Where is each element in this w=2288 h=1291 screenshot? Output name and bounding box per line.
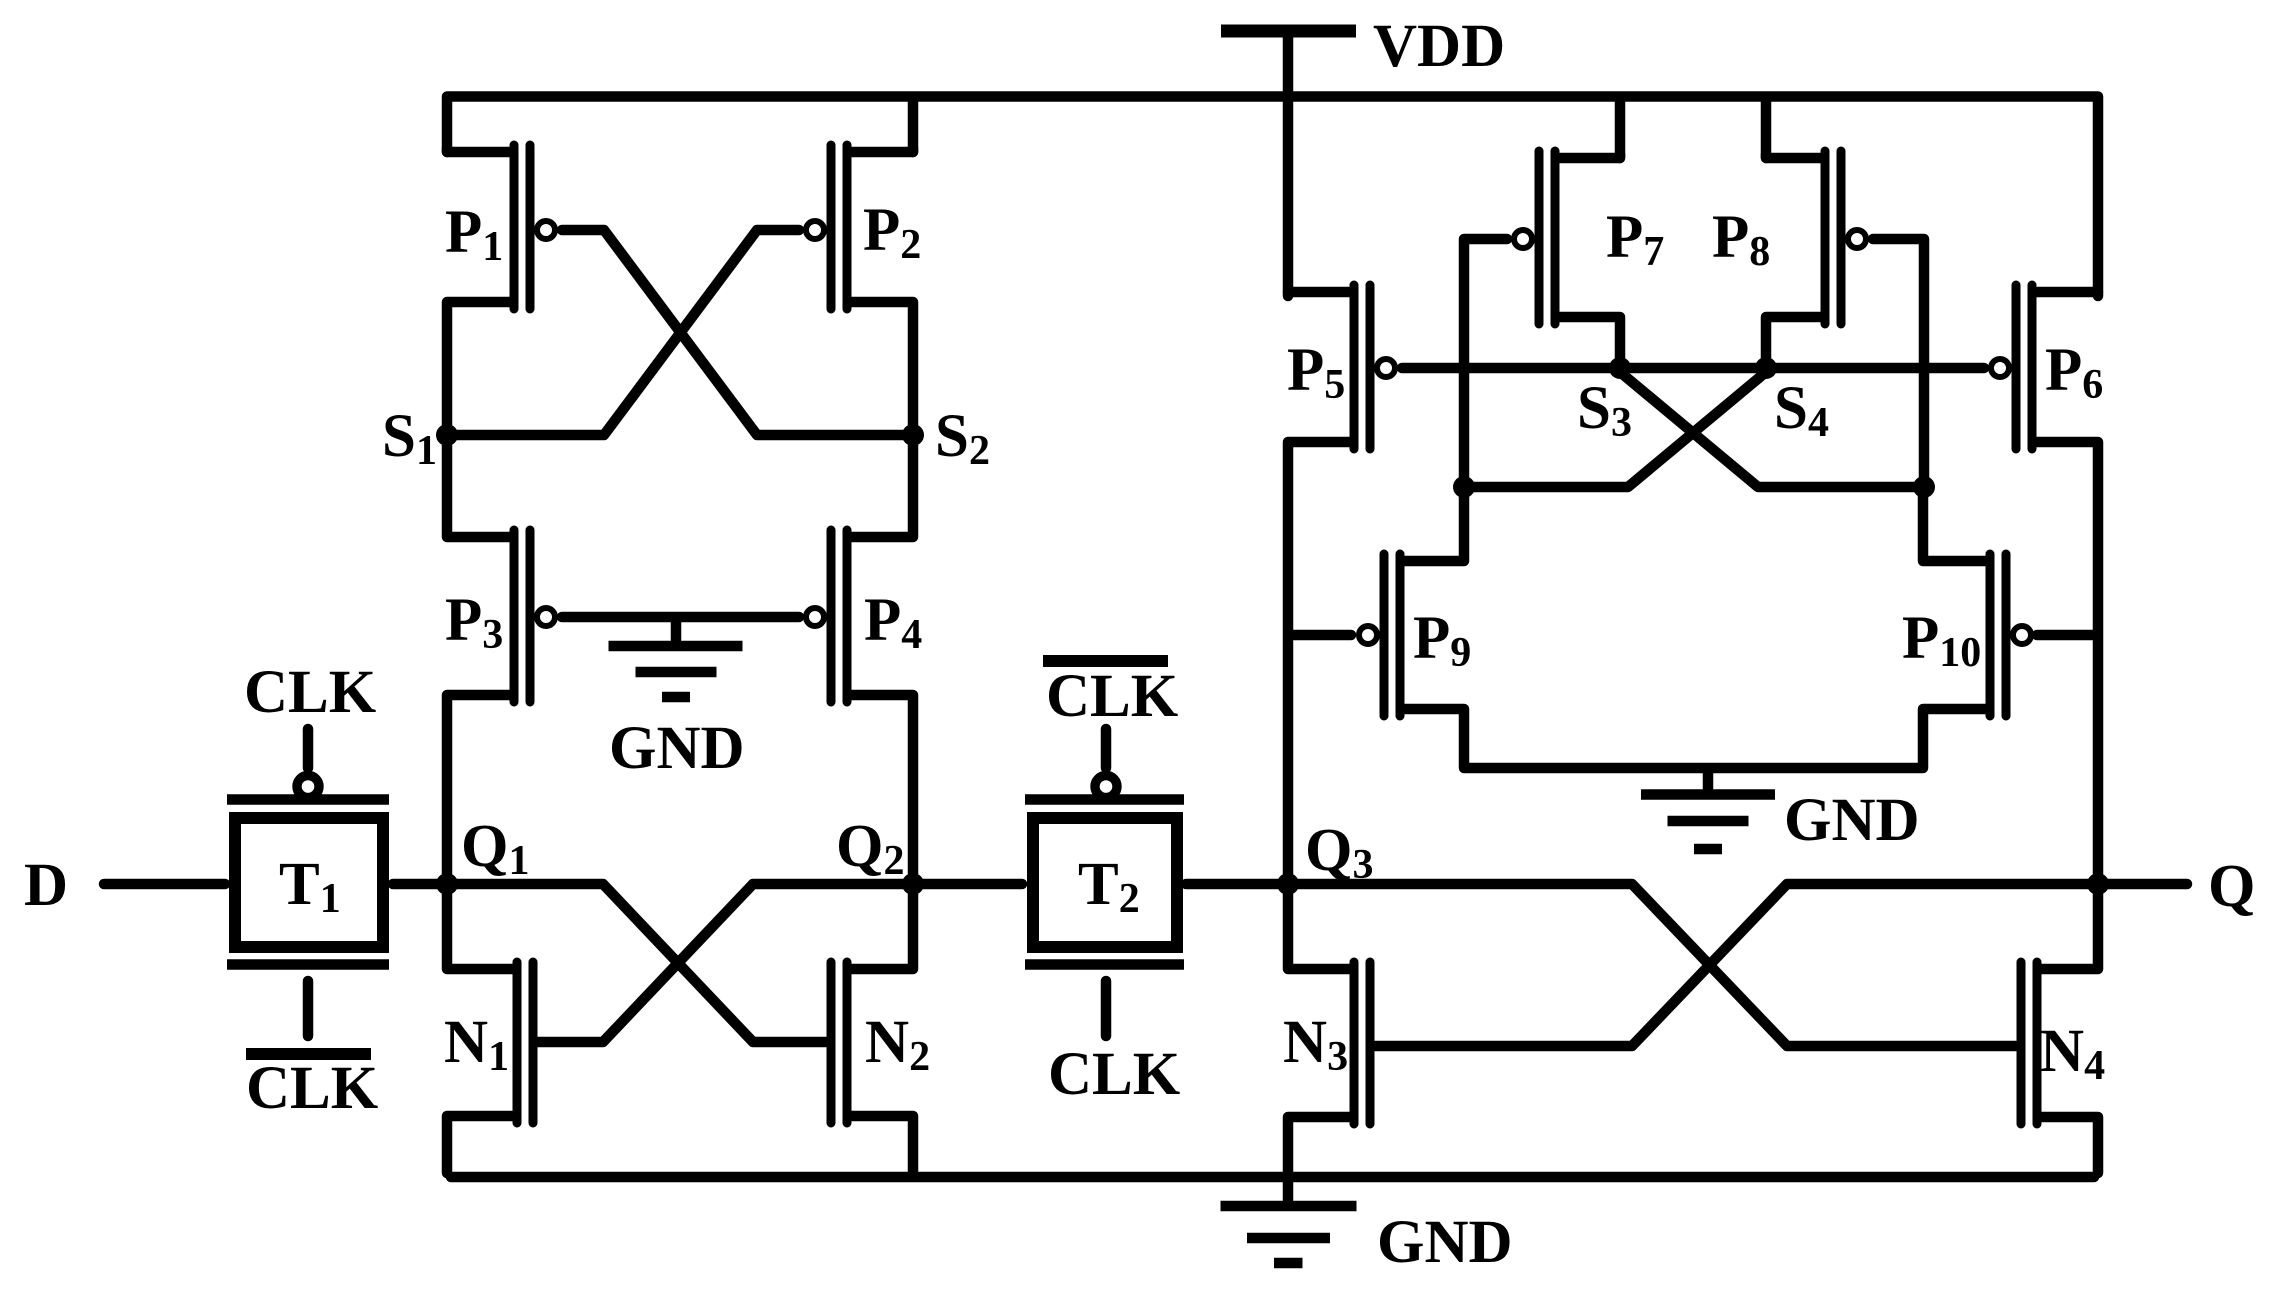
svg-text:T2: T2 xyxy=(1078,851,1140,922)
node Q3 xyxy=(1277,873,1299,895)
svg-text:P4: P4 xyxy=(864,587,922,658)
wire T2 clk stub top xyxy=(1101,729,1112,768)
svg-text:VDD: VDD xyxy=(1373,13,1505,80)
transistor P2 channel and gate bars xyxy=(831,145,847,309)
svg-text:T1: T1 xyxy=(279,851,341,922)
svg-text:S3: S3 xyxy=(1577,375,1632,446)
wire P3 drain to Q1 xyxy=(447,695,510,880)
wire Q2 to N2 drain lead xyxy=(851,888,913,969)
wire VDD stem xyxy=(1283,35,1294,95)
wire P7 source lead xyxy=(1559,154,1620,158)
transistor N3 channel and gate bars xyxy=(1354,962,1370,1124)
wire Q3 to N3 drain lead xyxy=(1288,888,1350,969)
wire node A down to P9 drain lead xyxy=(1404,491,1464,561)
transistor P5 channel and gate bars xyxy=(1354,285,1370,449)
wire T2 output to Q3 xyxy=(1186,879,1284,890)
svg-text:N3: N3 xyxy=(1283,1009,1348,1080)
svg-text:P1: P1 xyxy=(445,199,503,270)
svg-text:CLK: CLK xyxy=(1048,1041,1180,1108)
transistor P6 gate bubble xyxy=(1991,359,2009,377)
wire P2 drain lead down to S2 xyxy=(851,302,913,435)
wire VDD top rail with end drops xyxy=(447,97,2098,293)
svg-text:GND: GND xyxy=(1377,1209,1513,1276)
wire P10 drain lead up to node B xyxy=(1923,491,1986,561)
node A junction xyxy=(1453,476,1475,498)
wire Q to N4 drain lead xyxy=(2041,888,2098,969)
svg-text:S4: S4 xyxy=(1774,375,1829,446)
transistor P8 gate bubble xyxy=(1848,230,1866,248)
transistor N1 channel and gate bars xyxy=(517,962,533,1123)
ground GND2 bars (P9/P10 sources) xyxy=(1641,789,1775,800)
wire P1 source lead xyxy=(447,148,510,152)
svg-text:N2: N2 xyxy=(865,1009,930,1080)
transistor P10 channel and gate bars xyxy=(1990,554,2006,716)
transistor P7 gate bubble xyxy=(1514,230,1532,248)
transmission gate T2 bottom plate xyxy=(1025,959,1184,970)
wire P5 drain lead down to Q3 xyxy=(1288,442,1350,880)
wire P8 source lead xyxy=(1766,154,1821,158)
transmission gate T1 clk bubble xyxy=(297,776,319,798)
wire GND3 stem xyxy=(1283,1181,1294,1200)
wire T1 clk stub bottom xyxy=(303,981,314,1036)
wire S1 stub cross-coupled to P2 gate xyxy=(451,230,799,435)
wire N3 gate cross-coupled to Q stub xyxy=(1375,884,2094,1046)
wire P9 source to GND2 to P10 source xyxy=(1404,709,1986,768)
transistor P5 gate bubble xyxy=(1377,359,1395,377)
VDD power symbol bar xyxy=(1221,25,1356,38)
transistor P1 channel and gate bars xyxy=(514,145,530,309)
wire P4 drain to Q2 xyxy=(851,695,913,880)
svg-text:N1: N1 xyxy=(444,1009,509,1080)
wire N4 source lead down to rail end xyxy=(2041,1117,2098,1173)
wire S3 cross-coupled diagonal to node B xyxy=(1620,372,1920,487)
node Q2 xyxy=(902,873,924,895)
node S3 xyxy=(1609,357,1631,379)
wire T1 output to Q1 xyxy=(393,879,443,890)
wire N2 source lead to GND rail xyxy=(851,1116,913,1173)
transistor P4 channel and gate bars xyxy=(831,530,847,702)
svg-text:S1: S1 xyxy=(382,403,437,474)
wire rail drop to P7 xyxy=(1615,99,1626,158)
wire P5 source lead xyxy=(1288,292,1350,296)
svg-text:Q: Q xyxy=(2208,853,2255,920)
node S1 xyxy=(436,424,458,446)
transmission gate T2 top plate xyxy=(1025,794,1184,805)
wire P7 gate down to node A xyxy=(1464,239,1507,483)
svg-text:D: D xyxy=(24,852,68,919)
wire rail drop to P8 xyxy=(1761,99,1772,158)
wire rail drop to P2 xyxy=(908,99,919,152)
wire Q1 stub cross-coupled to N2 gate xyxy=(451,884,826,1042)
wire S1 to P3 source xyxy=(447,439,510,537)
svg-text:CLK: CLK xyxy=(246,1055,378,1122)
transistor P10 gate bubble xyxy=(2013,626,2031,644)
wire T1 clk stub top xyxy=(303,729,314,768)
wire P10 gate to Q vertical xyxy=(2037,630,2093,641)
label CLKbar overline (T2 top) xyxy=(1043,655,1168,667)
wire Q3 stub cross-coupled to N4 gate xyxy=(1292,884,2016,1046)
svg-text:GND: GND xyxy=(609,715,745,782)
ground GND1 bars (P3/P4 gates) xyxy=(609,641,743,652)
transistor P3 channel and gate bars xyxy=(514,530,530,702)
svg-text:P8: P8 xyxy=(1712,204,1770,275)
transmission gate T2 clk bubble xyxy=(1095,776,1117,798)
svg-text:CLK: CLK xyxy=(1046,663,1178,730)
wire P5 gate to S3/S4 rail xyxy=(1402,363,1984,374)
svg-text:P9: P9 xyxy=(1413,605,1471,676)
wire Q2 to T2 xyxy=(917,879,1022,890)
svg-text:GND: GND xyxy=(1784,787,1920,854)
wire P8 drain to S4 xyxy=(1766,317,1821,364)
wire S4 cross-coupled diagonal to node A xyxy=(1468,372,1766,487)
wire P7 drain to S3 xyxy=(1559,317,1620,364)
transmission gate T1 top plate xyxy=(227,794,389,805)
wire N3 source lead to GND rail xyxy=(1288,1117,1350,1173)
wire central vertical rail to P5 xyxy=(1283,99,1294,292)
node Q1 xyxy=(436,873,458,895)
svg-text:P6: P6 xyxy=(2045,337,2103,408)
transistor P8 channel and gate bars xyxy=(1825,151,1841,324)
transmission gate T1 box xyxy=(235,818,383,947)
label CLKbar overline (T1 bottom) xyxy=(246,1048,371,1060)
wire N1 gate cross-coupled to Q2 stub xyxy=(538,884,909,1042)
svg-text:N4: N4 xyxy=(2040,1018,2105,1089)
wire P6 source lead xyxy=(2036,292,2098,296)
svg-text:P2: P2 xyxy=(863,197,921,268)
svg-text:P3: P3 xyxy=(445,587,503,658)
transistor P7 channel and gate bars xyxy=(1539,151,1555,324)
wire P2 source lead xyxy=(851,148,913,152)
wire P1 drain lead down to S1 xyxy=(447,302,510,435)
transistor P4 gate bubble xyxy=(806,608,824,626)
wire P3 gate to P4 gate xyxy=(562,612,799,623)
wire T2 clk stub bottom xyxy=(1101,981,1112,1036)
wire S2 to P4 source xyxy=(851,439,913,537)
svg-text:P10: P10 xyxy=(1902,605,1981,676)
wire GND1 stem xyxy=(671,621,682,640)
node Q junction xyxy=(2087,873,2109,895)
transmission gate T2 box xyxy=(1033,818,1177,947)
svg-text:Q2: Q2 xyxy=(836,813,904,884)
wire P8 gate down to node B xyxy=(1873,239,1924,483)
wire Q1 to N1 drain lead xyxy=(447,888,513,969)
transistor N4 channel and gate bars xyxy=(2021,962,2037,1124)
transistor P2 gate bubble xyxy=(806,221,824,239)
node S2 xyxy=(902,424,924,446)
terminal D input wire xyxy=(104,879,225,890)
wire N1 source lead to GND rail xyxy=(447,1116,513,1173)
svg-text:P7: P7 xyxy=(1606,204,1664,275)
node B junction xyxy=(1913,476,1935,498)
transistor P9 gate bubble xyxy=(1359,626,1377,644)
svg-text:P5: P5 xyxy=(1287,337,1345,408)
svg-text:S2: S2 xyxy=(935,403,990,474)
svg-text:CLK: CLK xyxy=(244,659,376,726)
svg-text:Q3: Q3 xyxy=(1305,817,1373,888)
wire bottom GND rail xyxy=(451,1172,2094,1183)
transmission gate T1 bottom plate xyxy=(227,959,389,970)
node S4 xyxy=(1755,357,1777,379)
wire P6 drain lead down to Q xyxy=(2036,442,2098,880)
terminal Q output wire xyxy=(2102,879,2187,890)
wire GND2 stem xyxy=(1703,772,1714,789)
transistor P9 channel and gate bars xyxy=(1384,554,1400,716)
transistor P1 gate bubble xyxy=(537,221,555,239)
wire P9 gate to central vertical xyxy=(1293,630,1351,641)
svg-text:Q1: Q1 xyxy=(461,813,529,884)
transistor N2 channel and gate bars xyxy=(831,962,847,1123)
wire P1 gate cross-coupled to S2 stub xyxy=(562,230,909,435)
transistor P3 gate bubble xyxy=(537,608,555,626)
transistor P6 channel and gate bars xyxy=(2016,285,2032,449)
ground GND3 bars (bottom rail) xyxy=(1221,1201,1357,1212)
